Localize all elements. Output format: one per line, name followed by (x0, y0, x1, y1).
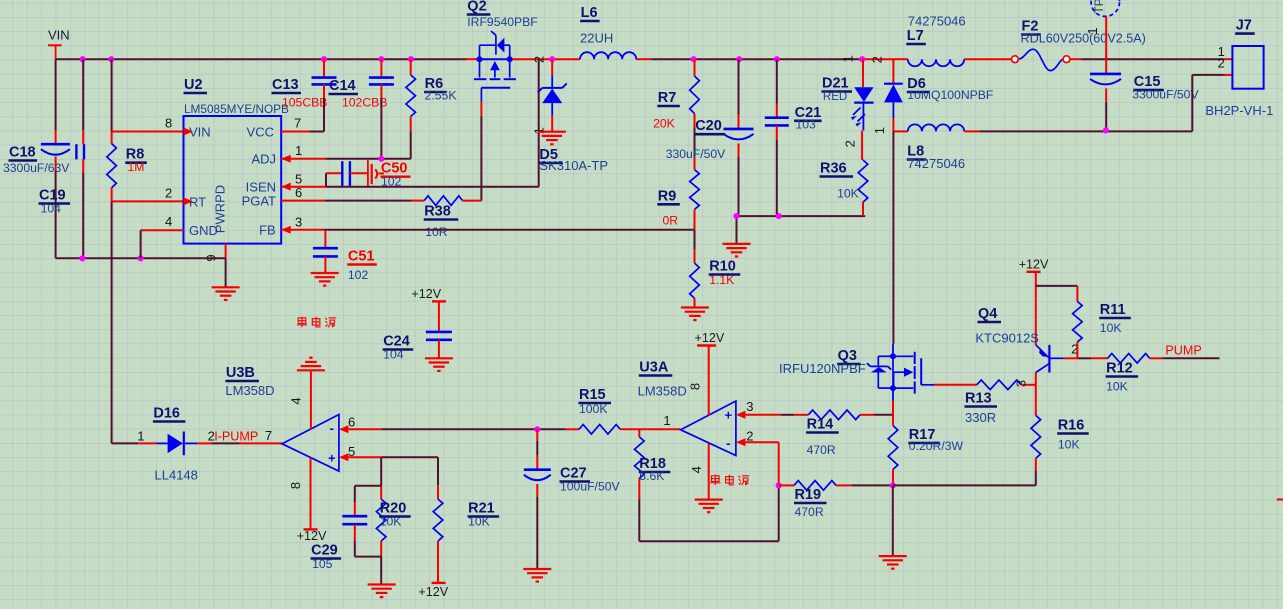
wire R13 to Q4 collector (1035, 373, 1037, 385)
svg-text:TP: TP (1092, 0, 1106, 14)
pin arrow U3B pin5 (339, 453, 349, 461)
svg-text:7: 7 (294, 116, 301, 131)
wire rail to U2 pin8 and R8 (112, 59, 184, 131)
svg-text:R13: R13 (965, 391, 992, 407)
power +12V under U3B (297, 529, 327, 543)
pin arrow U2 ISEN (281, 183, 291, 191)
svg-text:PUMP: PUMP (1165, 344, 1201, 358)
svg-text:4: 4 (689, 466, 704, 473)
capacitor C15 (1090, 74, 1199, 130)
svg-text:D21: D21 (822, 76, 849, 92)
junction dot C19-gnd (79, 255, 85, 261)
wire PGAT net (281, 200, 411, 202)
svg-text:C51: C51 (348, 248, 375, 264)
wire D16 to U3B output (212, 442, 283, 444)
junction dot C27 top (534, 426, 540, 432)
wire L7 segment to fuse (893, 58, 1232, 60)
svg-text:VIN: VIN (48, 28, 70, 43)
op-amp U3B LM358D (225, 365, 339, 471)
svg-text:1: 1 (137, 429, 144, 444)
resistor R9 (657, 170, 699, 230)
wire FB net (281, 229, 694, 231)
capacitor C50 coupling pair (326, 160, 384, 187)
svg-text:LM5085MYE/NOPB: LM5085MYE/NOPB (184, 102, 289, 116)
svg-text:0R: 0R (663, 213, 679, 227)
transistor Q2 IRF9540PBF (467, 0, 538, 116)
svg-text:330R: 330R (965, 410, 996, 425)
svg-text:10R: 10R (425, 225, 448, 239)
svg-text:U3A: U3A (639, 360, 669, 376)
svg-text:0.20R/3W: 0.20R/3W (909, 439, 964, 453)
wire R17 node to ground (892, 485, 894, 556)
pin 8 of U3B to +12V (288, 458, 311, 530)
svg-text:R14: R14 (807, 417, 834, 433)
wire Q3 source to R17 (892, 401, 894, 426)
svg-text:R12: R12 (1106, 361, 1133, 377)
capacitor C29 (311, 486, 382, 571)
svg-text:LM358D: LM358D (225, 383, 274, 398)
svg-text:+: + (328, 451, 336, 466)
ground symbol under U3A (695, 499, 723, 501)
junction dot C15 output (1103, 127, 1109, 133)
LED D21 (822, 55, 874, 147)
svg-text:+12V: +12V (1019, 258, 1049, 272)
svg-text:ADJ: ADJ (251, 152, 276, 167)
svg-text:10K: 10K (1058, 438, 1080, 452)
svg-text:+12V: +12V (695, 331, 725, 345)
junction dots on VIN rail (80, 56, 866, 62)
wire RT node (112, 201, 184, 443)
svg-text:FB: FB (259, 223, 276, 238)
svg-text:3: 3 (295, 214, 302, 229)
junction dot U2 pin4 gnd (138, 255, 144, 261)
svg-text:KTC9012S: KTC9012S (975, 331, 1039, 346)
svg-text:100K: 100K (579, 402, 607, 416)
svg-text:105CBB: 105CBB (282, 96, 327, 110)
capacitor C20 (666, 59, 754, 161)
junction dot C21 gnd net (776, 213, 782, 219)
wire C19 column (82, 59, 84, 258)
svg-text:104: 104 (41, 202, 62, 216)
wire ISEN net (281, 186, 539, 188)
svg-text:470R: 470R (807, 443, 836, 457)
op-amp U2 LM5085 body (184, 77, 290, 244)
transistor Q3 IRFU120NPBF (779, 344, 934, 401)
power flag VIN (48, 28, 70, 60)
svg-text:+: + (725, 408, 733, 423)
capacitor C27 (524, 429, 621, 569)
svg-text:5: 5 (295, 171, 302, 186)
svg-text:3: 3 (746, 399, 753, 414)
red note dan dian yuan 2 (710, 475, 749, 486)
diode D5 SK310A-TP (532, 59, 609, 173)
red tick mark right edge (1277, 499, 1283, 501)
svg-text:1: 1 (841, 55, 856, 62)
wire switch node to ISEN (531, 56, 546, 187)
svg-text:D16: D16 (153, 406, 180, 422)
wire R38 to Q2 gate (480, 116, 482, 201)
svg-text:20K: 20K (653, 117, 675, 131)
svg-text:RDL60V250(60V2.5A): RDL60V250(60V2.5A) (1021, 32, 1146, 46)
svg-text:1: 1 (663, 413, 670, 428)
label C51 (347, 248, 377, 282)
capacitor C24 (383, 332, 452, 362)
wire U3A pin2 net (745, 442, 778, 485)
wire ADJ net (281, 158, 411, 160)
connector J7 BH2P-VH-1 (1205, 18, 1273, 118)
wire to D16 (112, 442, 157, 444)
wire R14 to Q3 source node (874, 414, 893, 416)
inductor L6 (580, 5, 636, 59)
capacitor C18 (3, 144, 70, 175)
wire D6 to L8 (893, 130, 907, 132)
svg-text:10K: 10K (468, 515, 490, 529)
svg-text:2: 2 (870, 56, 885, 63)
svg-text:R16: R16 (1058, 418, 1085, 434)
resistor R36 (820, 160, 868, 216)
svg-text:2: 2 (1218, 55, 1225, 70)
svg-text:10K: 10K (837, 187, 859, 201)
svg-text:8: 8 (288, 482, 303, 489)
pin 9 stub of U2 (204, 244, 226, 262)
power +12V above C24 (411, 287, 446, 332)
svg-text:RED: RED (823, 91, 847, 103)
wire C50 corner to ISEN net (325, 173, 327, 186)
wire D6 node down to Q3 (892, 131, 894, 344)
diode D16 LL4148 (137, 406, 215, 483)
svg-text:10MQ100NPBF: 10MQ100NPBF (907, 88, 993, 102)
capacitor C51 (313, 230, 338, 273)
wire R6 to ADJ net (410, 131, 412, 159)
svg-text:+12V: +12V (418, 585, 448, 599)
svg-text:3: 3 (1014, 380, 1029, 387)
ground symbol under R20 (368, 583, 396, 585)
svg-text:C13: C13 (272, 77, 299, 93)
ground symbol above U3B (297, 369, 325, 371)
wire Q4 base to R12 PUMP net (1063, 357, 1107, 359)
svg-text:VCC: VCC (247, 124, 274, 139)
inductor L7 (906, 14, 965, 67)
capacitor C21 (765, 59, 822, 139)
wire C13 to U2 VCC pin7 (281, 98, 324, 132)
svg-text:1M: 1M (128, 160, 145, 174)
junction dot R17 bottom (890, 482, 896, 488)
svg-text:1: 1 (872, 127, 887, 134)
resistor R15 (579, 387, 681, 434)
svg-text:R38: R38 (424, 204, 451, 220)
wire VIN top rail (56, 58, 894, 60)
wire D21 to R36 (861, 130, 863, 160)
resistor R21 (433, 485, 499, 583)
svg-text:LL4148: LL4148 (155, 467, 198, 482)
svg-text:74275046: 74275046 (908, 14, 966, 29)
wire R7 to R9 (694, 128, 696, 170)
pin arrow U3A pin2 (736, 438, 746, 446)
svg-text:R10: R10 (709, 259, 736, 275)
svg-text:PGAT: PGAT (242, 194, 276, 209)
wire R20 to ground (380, 557, 382, 585)
pin arrow U2 VIN (184, 128, 194, 136)
svg-text:102: 102 (348, 268, 369, 282)
svg-text:2: 2 (531, 56, 546, 63)
svg-text:1.1K: 1.1K (709, 273, 734, 287)
svg-text:8: 8 (688, 383, 703, 390)
capacitor C13 (272, 59, 337, 109)
junction dot ADJ-C14 (378, 156, 384, 162)
test point TP (1085, 0, 1120, 74)
resistor R17 (888, 426, 963, 486)
svg-text:103: 103 (796, 117, 817, 131)
svg-text:U2: U2 (184, 77, 203, 93)
svg-text:10K: 10K (1100, 321, 1122, 335)
svg-text:2: 2 (746, 428, 753, 443)
wire U2 pin4 to gnd rail (141, 230, 184, 258)
diode D6 10MQ100NPBF (870, 56, 994, 134)
wire C14 to ADJ net (380, 98, 382, 159)
resistor R12 (1106, 354, 1163, 394)
svg-text:L7: L7 (907, 28, 924, 44)
resistor R14 (794, 410, 874, 457)
svg-text:+12V: +12V (297, 529, 327, 543)
wire C20 to mid gnd net (738, 157, 740, 216)
svg-text:IRF9540PBF: IRF9540PBF (467, 15, 537, 29)
power +12V above Q4 (1019, 258, 1049, 286)
svg-text:SK310A-TP: SK310A-TP (539, 158, 608, 173)
svg-text:100uF/50V: 100uF/50V (560, 479, 620, 493)
resistor R6 (406, 59, 457, 131)
pin arrow U2 ADJ (281, 155, 291, 163)
resistor R16 (1031, 385, 1089, 471)
ground symbol under U2 (212, 287, 240, 300)
svg-text:PWRPD: PWRPD (213, 185, 228, 233)
ground symbol under C27 (523, 568, 551, 570)
pin 4 of U3B to ground (289, 370, 311, 429)
op-amp U3A LM358D (638, 360, 736, 456)
ground symbol mid (723, 243, 751, 245)
label C50 (381, 160, 411, 188)
svg-text:J7: J7 (1236, 18, 1252, 34)
svg-text:7: 7 (265, 428, 272, 443)
pin 4 of U3A to ground (689, 444, 709, 500)
wire +12V to R11 (1036, 286, 1078, 302)
pin arrow U2 RT (184, 197, 194, 205)
wire C21 to mid gnd net (776, 139, 778, 216)
svg-text:1: 1 (295, 143, 302, 158)
resistor R11 (1073, 302, 1131, 359)
capacitor C19 (39, 144, 85, 215)
wire output net to J7 pin2 (964, 75, 1232, 131)
svg-text:2: 2 (843, 140, 858, 147)
wire PUMP net (1162, 357, 1219, 359)
wire U3B pin5 net (348, 457, 438, 486)
wire U3B pin6 net (348, 428, 579, 430)
ground symbol under C51 (311, 272, 339, 274)
resistor R13 (934, 380, 1036, 425)
wire R9 to R10 (694, 230, 696, 263)
svg-text:74275046: 74275046 (907, 156, 965, 171)
svg-text:R15: R15 (579, 387, 606, 403)
svg-text:5.6K: 5.6K (639, 469, 664, 483)
svg-text:R19: R19 (795, 487, 822, 503)
fuse F2 (1012, 19, 1146, 71)
svg-text:4: 4 (289, 397, 304, 404)
svg-text:4: 4 (165, 214, 172, 229)
svg-text:I-PUMP: I-PUMP (214, 430, 258, 444)
svg-text:10K: 10K (1106, 379, 1128, 393)
svg-text:L6: L6 (581, 5, 598, 21)
svg-text:IRFU120NPBF: IRFU120NPBF (779, 361, 866, 376)
svg-text:3300uF/63V: 3300uF/63V (3, 161, 70, 175)
svg-text:470R: 470R (795, 505, 824, 519)
svg-text:105: 105 (312, 557, 333, 571)
svg-text:U3B: U3B (226, 365, 255, 381)
resistor R8 (107, 132, 147, 202)
ground symbol under R17 (879, 555, 907, 557)
svg-text:R9: R9 (658, 188, 677, 204)
svg-text:Q4: Q4 (978, 306, 997, 322)
svg-text:C18: C18 (9, 145, 36, 161)
svg-text:Q2: Q2 (467, 0, 486, 15)
wire feedback loop (639, 485, 778, 541)
wire mid ground net (737, 216, 866, 244)
junction dot C20 gnd net (733, 213, 739, 219)
svg-text:22UH: 22UH (580, 31, 613, 46)
svg-text:6: 6 (348, 415, 355, 430)
svg-text:C14: C14 (329, 78, 356, 94)
svg-text:-: - (330, 420, 334, 435)
svg-text:8: 8 (165, 116, 172, 131)
power +12V under R21 (418, 583, 448, 599)
svg-text:ISEN: ISEN (246, 179, 276, 194)
svg-text:104: 104 (383, 347, 404, 361)
pin 8 of U3A to +12V (688, 346, 709, 416)
resistor R19 (779, 481, 852, 520)
wire R16 to R17 node (893, 471, 1036, 486)
svg-text:R36: R36 (820, 161, 847, 177)
svg-text:R11: R11 (1100, 302, 1126, 318)
svg-text:+12V: +12V (411, 287, 441, 301)
power +12V above U3A (695, 331, 725, 345)
junction dot pin2 node (776, 482, 782, 488)
svg-text:R7: R7 (658, 90, 677, 106)
pin arrow U3B pin6 (339, 425, 349, 433)
red note dan dian yuan 1 (297, 317, 336, 328)
svg-text:330uF/50V: 330uF/50V (666, 147, 726, 161)
pin arrow U2 FB (281, 226, 291, 234)
svg-text:C20: C20 (695, 118, 722, 134)
svg-text:1: 1 (1085, 27, 1100, 34)
ground symbol under D5 (538, 131, 566, 133)
svg-text:LM358D: LM358D (638, 384, 687, 399)
capacitor C14 (329, 59, 394, 109)
transistor Q4 KTC9012S (975, 286, 1063, 373)
resistor R38 (411, 196, 481, 239)
svg-text:2: 2 (165, 186, 172, 201)
wire ground rail (56, 257, 226, 259)
svg-text:-: - (726, 435, 730, 450)
svg-text:10K: 10K (380, 515, 402, 529)
wire U3A pin3 net (745, 414, 794, 416)
ground symbol under C24 (425, 357, 453, 359)
resistor R7 (653, 59, 699, 130)
ground symbol under R10 (681, 306, 709, 308)
wire pin9 down (225, 258, 227, 287)
inductor L8 (907, 124, 965, 171)
svg-text:2.55K: 2.55K (425, 89, 457, 103)
wire R19 to R17 node (851, 484, 893, 486)
resistor R20 (376, 486, 410, 557)
pin arrow U3A pin3 (736, 411, 746, 419)
resistor R18 (635, 429, 671, 499)
wire VIN column to C18 (55, 59, 57, 144)
resistor R10 (690, 259, 741, 308)
svg-text:3300uF/50V: 3300uF/50V (1132, 88, 1199, 102)
svg-text:BH2P-VH-1: BH2P-VH-1 (1205, 103, 1273, 118)
wire C18 to ground rail (55, 171, 57, 259)
